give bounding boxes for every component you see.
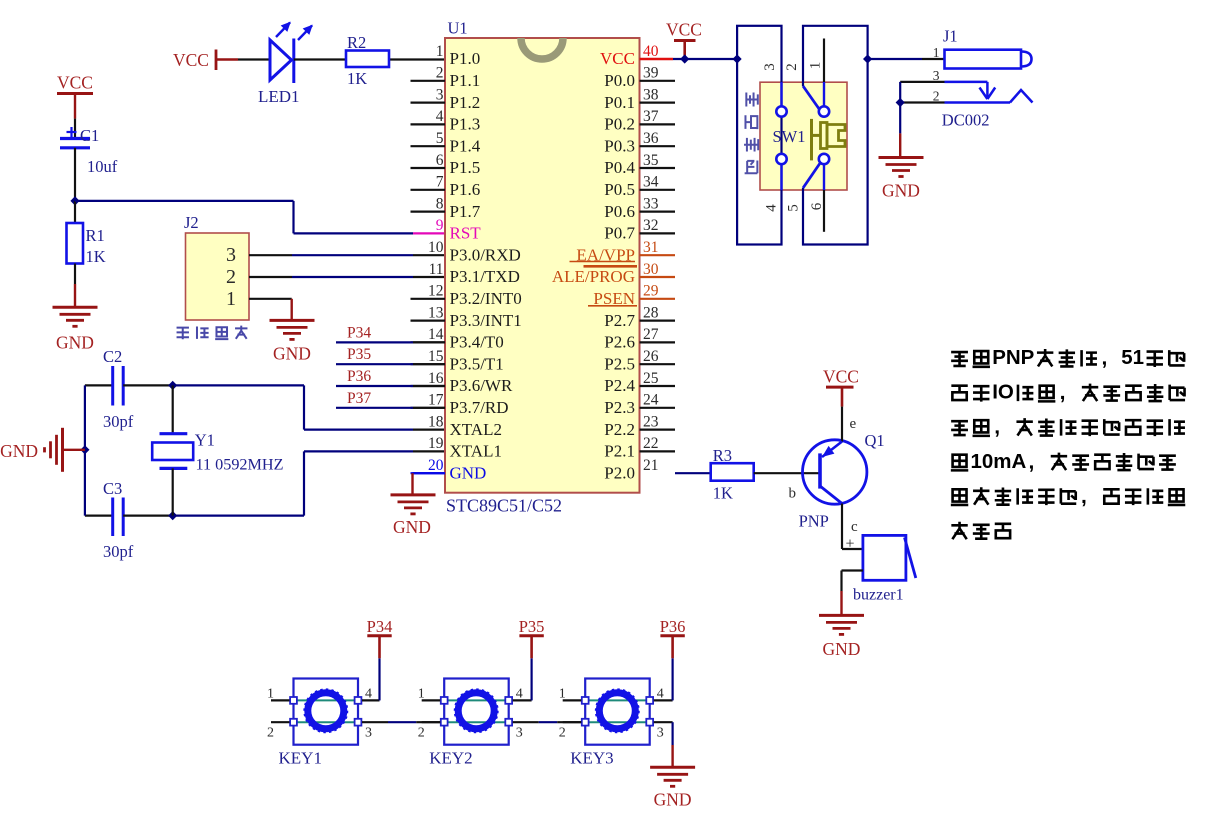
svg-text:2: 2 bbox=[226, 266, 236, 288]
svg-text:J1: J1 bbox=[943, 27, 958, 46]
svg-text:1: 1 bbox=[226, 288, 236, 310]
svg-text:6: 6 bbox=[436, 152, 444, 169]
svg-text:GND: GND bbox=[56, 333, 94, 353]
svg-text:P1.7: P1.7 bbox=[450, 202, 481, 221]
svg-text:1: 1 bbox=[933, 45, 940, 60]
svg-text:P2.1: P2.1 bbox=[604, 442, 635, 461]
svg-text:GND: GND bbox=[0, 441, 38, 461]
svg-text:9: 9 bbox=[436, 217, 444, 234]
svg-text:P3.4/T0: P3.4/T0 bbox=[450, 333, 504, 352]
svg-text:P3.6/WR: P3.6/WR bbox=[450, 376, 513, 395]
svg-text:2: 2 bbox=[784, 63, 800, 71]
svg-text:3: 3 bbox=[365, 726, 372, 741]
svg-text:P36: P36 bbox=[347, 368, 371, 385]
svg-text:GND: GND bbox=[823, 639, 861, 659]
svg-text:GND: GND bbox=[393, 517, 431, 537]
svg-text:P3.5/T1: P3.5/T1 bbox=[450, 354, 504, 373]
svg-text:40: 40 bbox=[643, 43, 659, 60]
svg-text:STC89C51/C52: STC89C51/C52 bbox=[446, 496, 562, 516]
svg-text:P0.2: P0.2 bbox=[604, 115, 635, 134]
svg-text:17: 17 bbox=[428, 392, 444, 409]
svg-text:P0.3: P0.3 bbox=[604, 136, 635, 155]
svg-text:P0.6: P0.6 bbox=[604, 202, 635, 221]
svg-text:21: 21 bbox=[643, 457, 659, 474]
svg-text:22: 22 bbox=[643, 435, 659, 452]
svg-text:,: , bbox=[1081, 485, 1087, 508]
svg-text:16: 16 bbox=[428, 370, 444, 387]
svg-text:VCC: VCC bbox=[57, 73, 93, 93]
svg-text:2: 2 bbox=[436, 65, 444, 82]
svg-text:25: 25 bbox=[643, 370, 659, 387]
svg-text:PNP: PNP bbox=[799, 512, 829, 531]
svg-text:3: 3 bbox=[762, 63, 778, 71]
svg-text:26: 26 bbox=[643, 348, 659, 365]
svg-text:1K: 1K bbox=[86, 247, 106, 266]
svg-text:P2.7: P2.7 bbox=[604, 311, 635, 330]
svg-text:30pf: 30pf bbox=[103, 542, 134, 561]
svg-text:R1: R1 bbox=[86, 226, 105, 245]
svg-text:P2.3: P2.3 bbox=[604, 398, 635, 417]
svg-text:,: , bbox=[1102, 347, 1108, 370]
svg-text:P35: P35 bbox=[519, 617, 545, 636]
svg-text:P37: P37 bbox=[347, 390, 371, 407]
svg-text:2: 2 bbox=[267, 726, 274, 741]
svg-text:P2.4: P2.4 bbox=[604, 376, 635, 395]
svg-text:1: 1 bbox=[559, 687, 566, 702]
svg-text:7: 7 bbox=[436, 174, 444, 191]
svg-text:29: 29 bbox=[643, 283, 659, 300]
svg-text:Q1: Q1 bbox=[865, 431, 885, 450]
svg-text:30pf: 30pf bbox=[103, 412, 134, 431]
svg-text:IO: IO bbox=[992, 381, 1014, 404]
svg-text:3: 3 bbox=[657, 726, 664, 741]
svg-text:24: 24 bbox=[643, 392, 659, 409]
svg-text:31: 31 bbox=[643, 239, 659, 256]
svg-text:5: 5 bbox=[436, 130, 444, 147]
svg-text:12: 12 bbox=[428, 283, 444, 300]
svg-text:P1.3: P1.3 bbox=[450, 115, 481, 134]
svg-text:1: 1 bbox=[267, 687, 274, 702]
svg-text:20: 20 bbox=[428, 457, 444, 474]
svg-text:3: 3 bbox=[516, 726, 523, 741]
svg-text:28: 28 bbox=[643, 304, 659, 321]
svg-text:P3.0/RXD: P3.0/RXD bbox=[450, 245, 521, 264]
svg-text:GND: GND bbox=[273, 344, 311, 364]
svg-text:RST: RST bbox=[450, 224, 482, 243]
svg-text:+: + bbox=[846, 536, 855, 553]
svg-text:XTAL1: XTAL1 bbox=[450, 442, 502, 461]
svg-text:P3.1/TXD: P3.1/TXD bbox=[450, 267, 520, 286]
svg-text:VCC: VCC bbox=[173, 50, 209, 70]
svg-text:VCC: VCC bbox=[600, 49, 635, 68]
svg-text:P3.3/INT1: P3.3/INT1 bbox=[450, 311, 522, 330]
svg-text:38: 38 bbox=[643, 86, 659, 103]
svg-text:23: 23 bbox=[643, 413, 659, 430]
svg-text:34: 34 bbox=[643, 174, 659, 191]
svg-text:,: , bbox=[994, 416, 1000, 439]
svg-text:P0.5: P0.5 bbox=[604, 180, 635, 199]
svg-text:P34: P34 bbox=[347, 324, 371, 341]
svg-text:XTAL2: XTAL2 bbox=[450, 420, 502, 439]
svg-text:KEY3: KEY3 bbox=[570, 749, 613, 768]
svg-text:P35: P35 bbox=[347, 346, 371, 363]
svg-text:35: 35 bbox=[643, 152, 659, 169]
svg-text:buzzer1: buzzer1 bbox=[853, 587, 904, 604]
svg-text:P1.4: P1.4 bbox=[450, 136, 481, 155]
svg-text:3: 3 bbox=[226, 244, 236, 266]
svg-text:5: 5 bbox=[786, 204, 802, 212]
svg-text:ALE/PROG: ALE/PROG bbox=[552, 267, 635, 286]
svg-text:VCC: VCC bbox=[823, 367, 859, 387]
svg-text:,: , bbox=[1029, 450, 1035, 473]
svg-text:P1.5: P1.5 bbox=[450, 158, 481, 177]
svg-text:27: 27 bbox=[643, 326, 659, 343]
svg-text:C3: C3 bbox=[103, 479, 122, 498]
svg-text:11: 11 bbox=[429, 261, 444, 278]
svg-text:1: 1 bbox=[418, 687, 425, 702]
svg-text:P2.6: P2.6 bbox=[604, 333, 635, 352]
svg-text:P3.2/INT0: P3.2/INT0 bbox=[450, 289, 522, 308]
svg-text:KEY2: KEY2 bbox=[429, 749, 472, 768]
svg-text:P1.1: P1.1 bbox=[450, 71, 481, 90]
svg-text:GND: GND bbox=[882, 181, 920, 201]
svg-text:13: 13 bbox=[428, 304, 444, 321]
svg-text:P1.6: P1.6 bbox=[450, 180, 481, 199]
svg-text:GND: GND bbox=[654, 790, 692, 810]
svg-text:1: 1 bbox=[808, 62, 824, 70]
svg-text:39: 39 bbox=[643, 65, 659, 82]
svg-text:SW1: SW1 bbox=[773, 127, 806, 146]
svg-text:R2: R2 bbox=[347, 33, 366, 52]
svg-text:10uf: 10uf bbox=[87, 157, 118, 176]
svg-text:P2.0: P2.0 bbox=[604, 463, 635, 482]
svg-text:11 0592MHZ: 11 0592MHZ bbox=[196, 456, 284, 474]
svg-text:18: 18 bbox=[428, 413, 444, 430]
svg-text:P0.1: P0.1 bbox=[604, 93, 635, 112]
svg-text:4: 4 bbox=[764, 204, 780, 212]
svg-text:R3: R3 bbox=[713, 446, 732, 465]
svg-text:36: 36 bbox=[643, 130, 659, 147]
svg-text:GND: GND bbox=[450, 463, 487, 482]
svg-text:1K: 1K bbox=[713, 484, 733, 503]
svg-text:b: b bbox=[789, 486, 797, 502]
svg-text:P1.0: P1.0 bbox=[450, 49, 481, 68]
svg-text:2: 2 bbox=[418, 726, 425, 741]
svg-text:LED1: LED1 bbox=[258, 87, 300, 106]
svg-text:Y1: Y1 bbox=[195, 431, 215, 450]
svg-text:P3.7/RD: P3.7/RD bbox=[450, 398, 509, 417]
svg-text:2: 2 bbox=[933, 89, 940, 104]
svg-text:PNP: PNP bbox=[992, 346, 1034, 369]
svg-text:1K: 1K bbox=[347, 69, 367, 88]
svg-text:15: 15 bbox=[428, 348, 444, 365]
svg-text:P0.4: P0.4 bbox=[604, 158, 635, 177]
svg-text:P2.5: P2.5 bbox=[604, 354, 635, 373]
svg-text:1: 1 bbox=[436, 43, 444, 60]
svg-text:30: 30 bbox=[643, 261, 659, 278]
svg-text:19: 19 bbox=[428, 435, 444, 452]
svg-text:8: 8 bbox=[436, 195, 444, 212]
svg-text:C1: C1 bbox=[80, 126, 99, 145]
svg-text:P36: P36 bbox=[660, 617, 686, 636]
svg-text:33: 33 bbox=[643, 195, 659, 212]
svg-text:4: 4 bbox=[436, 108, 444, 125]
svg-text:32: 32 bbox=[643, 217, 659, 234]
svg-text:c: c bbox=[851, 519, 858, 535]
svg-text:DC002: DC002 bbox=[942, 111, 990, 130]
svg-text:6: 6 bbox=[809, 202, 825, 210]
svg-text:KEY1: KEY1 bbox=[279, 749, 322, 768]
svg-text:P34: P34 bbox=[367, 617, 393, 636]
svg-text:51: 51 bbox=[1121, 346, 1144, 369]
svg-text:J2: J2 bbox=[184, 213, 199, 232]
svg-text:10: 10 bbox=[428, 239, 444, 256]
svg-text:2: 2 bbox=[559, 726, 566, 741]
svg-text:3: 3 bbox=[933, 68, 940, 83]
svg-text:P2.2: P2.2 bbox=[604, 420, 635, 439]
svg-text:14: 14 bbox=[428, 326, 444, 343]
svg-text:37: 37 bbox=[643, 108, 659, 125]
svg-text:P0.0: P0.0 bbox=[604, 71, 635, 90]
svg-text:VCC: VCC bbox=[666, 20, 702, 40]
svg-text:P1.2: P1.2 bbox=[450, 93, 481, 112]
svg-text:P0.7: P0.7 bbox=[604, 224, 635, 243]
svg-text:U1: U1 bbox=[448, 19, 468, 38]
svg-text:,: , bbox=[1060, 381, 1066, 404]
svg-text:C2: C2 bbox=[103, 347, 122, 366]
svg-text:10mA: 10mA bbox=[971, 450, 1027, 473]
svg-text:3: 3 bbox=[436, 86, 444, 103]
svg-text:e: e bbox=[850, 416, 857, 432]
